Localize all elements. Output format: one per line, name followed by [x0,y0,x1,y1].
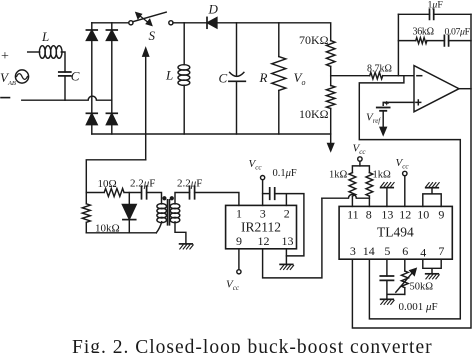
svg-text:36kΩ: 36kΩ [413,27,434,38]
svg-text:3: 3 [260,207,266,221]
wire feedback mid branch right [449,40,471,42]
wire IR2112 pin 12 to TL494 side [263,198,322,278]
wire IR2112 pin 9 to Vcc terminal [238,249,240,270]
wire transformer secondary top to 2.2uF [175,193,190,204]
capacitor 0.07uF [444,35,448,46]
wire 1k right to TL494 pin 8 [368,196,370,206]
resistor 36k [416,38,427,44]
wire 0.1uF to IR2112 pin 2 and wrap to pin 13 [275,194,304,256]
svg-text:7: 7 [438,244,444,258]
svg-text:13: 13 [381,208,393,222]
svg-text:D: D [208,2,219,17]
wire feedback top branch right [434,13,471,15]
switch S lever [133,12,166,22]
switch S contact left [129,21,133,25]
svg-text:11: 11 [347,208,359,222]
wire transformer primary return [156,222,161,233]
wire op-amp output [459,88,471,90]
wire inductor L branch bottom [183,85,185,134]
ground above TL494 pins 10-9 [426,187,439,189]
wire 36k to 0.07uF [427,40,445,42]
svg-text:L: L [41,29,49,44]
ground above TL494 pin 13 [381,187,394,189]
svg-text:L: L [165,68,173,83]
svg-text:2.2μF: 2.2μF [177,178,202,190]
wire divider tap to 8.7k [331,75,370,77]
ground arrow below divider [328,134,334,151]
label op-amp minus input [417,75,422,77]
arrowhead control to switch [143,48,149,56]
inductor L (buck-boost) [178,65,190,86]
pin labels IR2112 top row 1 3 2 [236,207,290,221]
svg-text:+: + [1,49,9,64]
wire inductor L branch top [183,23,185,65]
node Vcc terminal at TL494 pin 12 [403,171,407,175]
svg-text:12: 12 [258,234,270,248]
resistor 10K [326,86,335,109]
capacitor 2.2uF (right) [190,186,195,199]
wire IR2112 pin 13 to ground [285,249,287,265]
node Vcc terminal above 1k pair [358,157,362,166]
capacitor C (output) [229,72,245,81]
wire bridge left leg [91,40,93,113]
pin labels TL494 bottom row 3 14 5 6 4 7 [350,244,445,260]
svg-text:0.001 μF: 0.001 μF [399,301,438,313]
IC U3 TL494 body [339,206,452,259]
resistor 10k (gate) [82,193,90,233]
wire TL494 pin 12 to Vcc terminal [404,176,406,207]
diode bridge bottom-right [106,113,117,124]
wire output capacitor C branch top [236,23,238,76]
transformer T1 [157,197,180,225]
node Vcc terminal below IR2112 [237,270,241,274]
wire output capacitor C branch bottom [236,81,238,134]
svg-text:70KΩ: 70KΩ [299,33,329,47]
IC U2 IR2112 body [226,205,297,248]
wire 1k pair top bar [352,166,369,173]
battery Vref [377,102,390,111]
svg-text:TL494: TL494 [377,225,414,240]
svg-text:C: C [219,71,228,86]
wire TL494 pin 5 to timing capacitor [386,259,388,276]
wire AC bottom (hops over bridge left leg, joins right leg) [22,96,112,100]
wire TL494 pin 11 to 1k resistor [351,196,353,206]
svg-text:0.07μF: 0.07μF [445,27,471,38]
wire TL494 pin 6 to potentiometer [404,259,406,271]
svg-text:10KΩ: 10KΩ [299,107,329,121]
ground below IR2112 pin 13 [280,263,293,265]
svg-text:12: 12 [399,208,411,222]
capacitor 1uF [430,9,434,19]
svg-text:Fig. 2. Closed-loop buck-boos: Fig. 2. Closed-loop buck-boost converter [72,337,433,353]
switch S actuation arrow [136,13,152,26]
potentiometer 50k [396,269,416,295]
svg-text:2: 2 [284,207,290,221]
wire load R branch bottom [278,91,280,135]
AC source VAB [15,70,28,83]
wire 8.7k to op-amp inverting input [383,75,414,77]
wire bridge top joint to switch [92,22,129,24]
svg-text:8.7kΩ: 8.7kΩ [367,64,392,75]
wire TL494 pin 13 to ground [386,188,388,207]
resistor 1k right [366,173,373,197]
wire timing cap to ground and pot [387,280,405,299]
svg-text:IR2112: IR2112 [241,220,281,235]
diode bridge bottom-left [86,113,97,124]
wire capacitor C to AC bottom wire [64,76,66,100]
wire TL494 pins 10 and 9 bracket to ground [423,188,441,207]
wire inductor to capacitor C [61,52,65,72]
capacitor 2.2uF (left) [142,186,147,199]
capacitor C (input filter) [59,72,71,76]
wire load R branch top [278,23,280,57]
svg-text:9: 9 [236,234,242,248]
svg-text:1kΩ: 1kΩ [329,170,348,181]
wire switch to output section [173,23,331,41]
svg-text:R: R [259,70,268,85]
resistor R (load) [272,57,286,91]
wire transformer secondary bottom to ground [175,222,186,244]
ground below TL494 pins 4-7 [426,273,439,275]
wire op-amp output vertical to TL494 pin 3 [352,14,471,328]
svg-text:1μF: 1μF [428,0,444,11]
wire op-amp noninverting input to Vref [383,102,414,105]
svg-text:2.2μF: 2.2μF [130,178,155,190]
wire from source positive to inductor L [28,51,40,53]
wire IR2112 pin 12 to TL494 pin 8 (hops pin 11 wire) [322,194,370,198]
resistor 10 ohm [86,189,141,197]
svg-text:13: 13 [282,234,294,248]
svg-text:50kΩ: 50kΩ [410,282,434,293]
label - (source negative terminal) [1,97,10,99]
svg-text:8: 8 [366,208,372,222]
node Vcc terminal above IR2112 [261,176,265,180]
svg-text:10: 10 [417,208,429,222]
wire control line corner to 10 ohm network [86,160,145,193]
wire 2.2uF to transformer primary [147,193,162,204]
svg-text:4: 4 [420,246,426,260]
inductor L (input filter) [39,46,62,59]
wire feedback left vertical [397,14,399,75]
pin labels IR2112 bottom row 9 12 13 [236,234,294,248]
capacitor 0.1uF [263,188,275,199]
diode bridge top-left [86,23,97,41]
op-amp U1 [414,66,459,112]
wire feedback top branch left [398,13,429,15]
diode D [207,17,217,28]
capacitor 0.001uF [380,276,393,280]
wire gate network bottom [86,232,156,234]
pin labels TL494 top row 11 8 13 12 10 9 [347,208,444,222]
wire 70K to 10K with tap [330,66,332,85]
wire gate drive control line [145,55,147,160]
svg-text:9: 9 [438,208,444,222]
svg-text:3: 3 [350,244,356,258]
ground arrow below Vref [380,111,386,135]
diode (gate clamp) [122,193,136,233]
diode bridge top-right [106,23,117,41]
svg-text:5: 5 [384,244,390,258]
svg-text:0.1μF: 0.1μF [273,168,297,179]
svg-text:10Ω: 10Ω [98,178,117,190]
wire IR2112 pin 3 to Vcc terminal [262,180,264,206]
wire bridge left leg bottom [91,125,93,134]
ground below transformer secondary [180,243,193,245]
svg-text:6: 6 [402,244,408,258]
svg-text:1: 1 [236,207,242,221]
resistor 8.7k [370,72,383,79]
svg-text:14: 14 [363,244,375,258]
wire 10K to bottom rail [330,109,332,135]
resistor 1k left [349,173,356,197]
wire bridge right leg bottom [111,125,113,134]
switch S contact right [169,21,173,25]
wire DC bottom rail [92,133,331,135]
wire TL494 pins 4 and 7 bracket to ground [423,259,441,274]
label op-amp plus input [416,100,421,105]
wire feedback mid branch left [398,40,415,42]
svg-text:C: C [71,69,80,84]
wire bridge right leg [111,40,113,113]
svg-text:S: S [149,28,156,43]
ground below timing components [381,298,394,300]
svg-text:1kΩ: 1kΩ [373,170,392,181]
wire op-amp inverting node to TL494 pin 14 [359,76,460,319]
wire 2.2uF to IR2112 pin 1 [195,193,239,206]
resistor 70K [326,41,335,67]
